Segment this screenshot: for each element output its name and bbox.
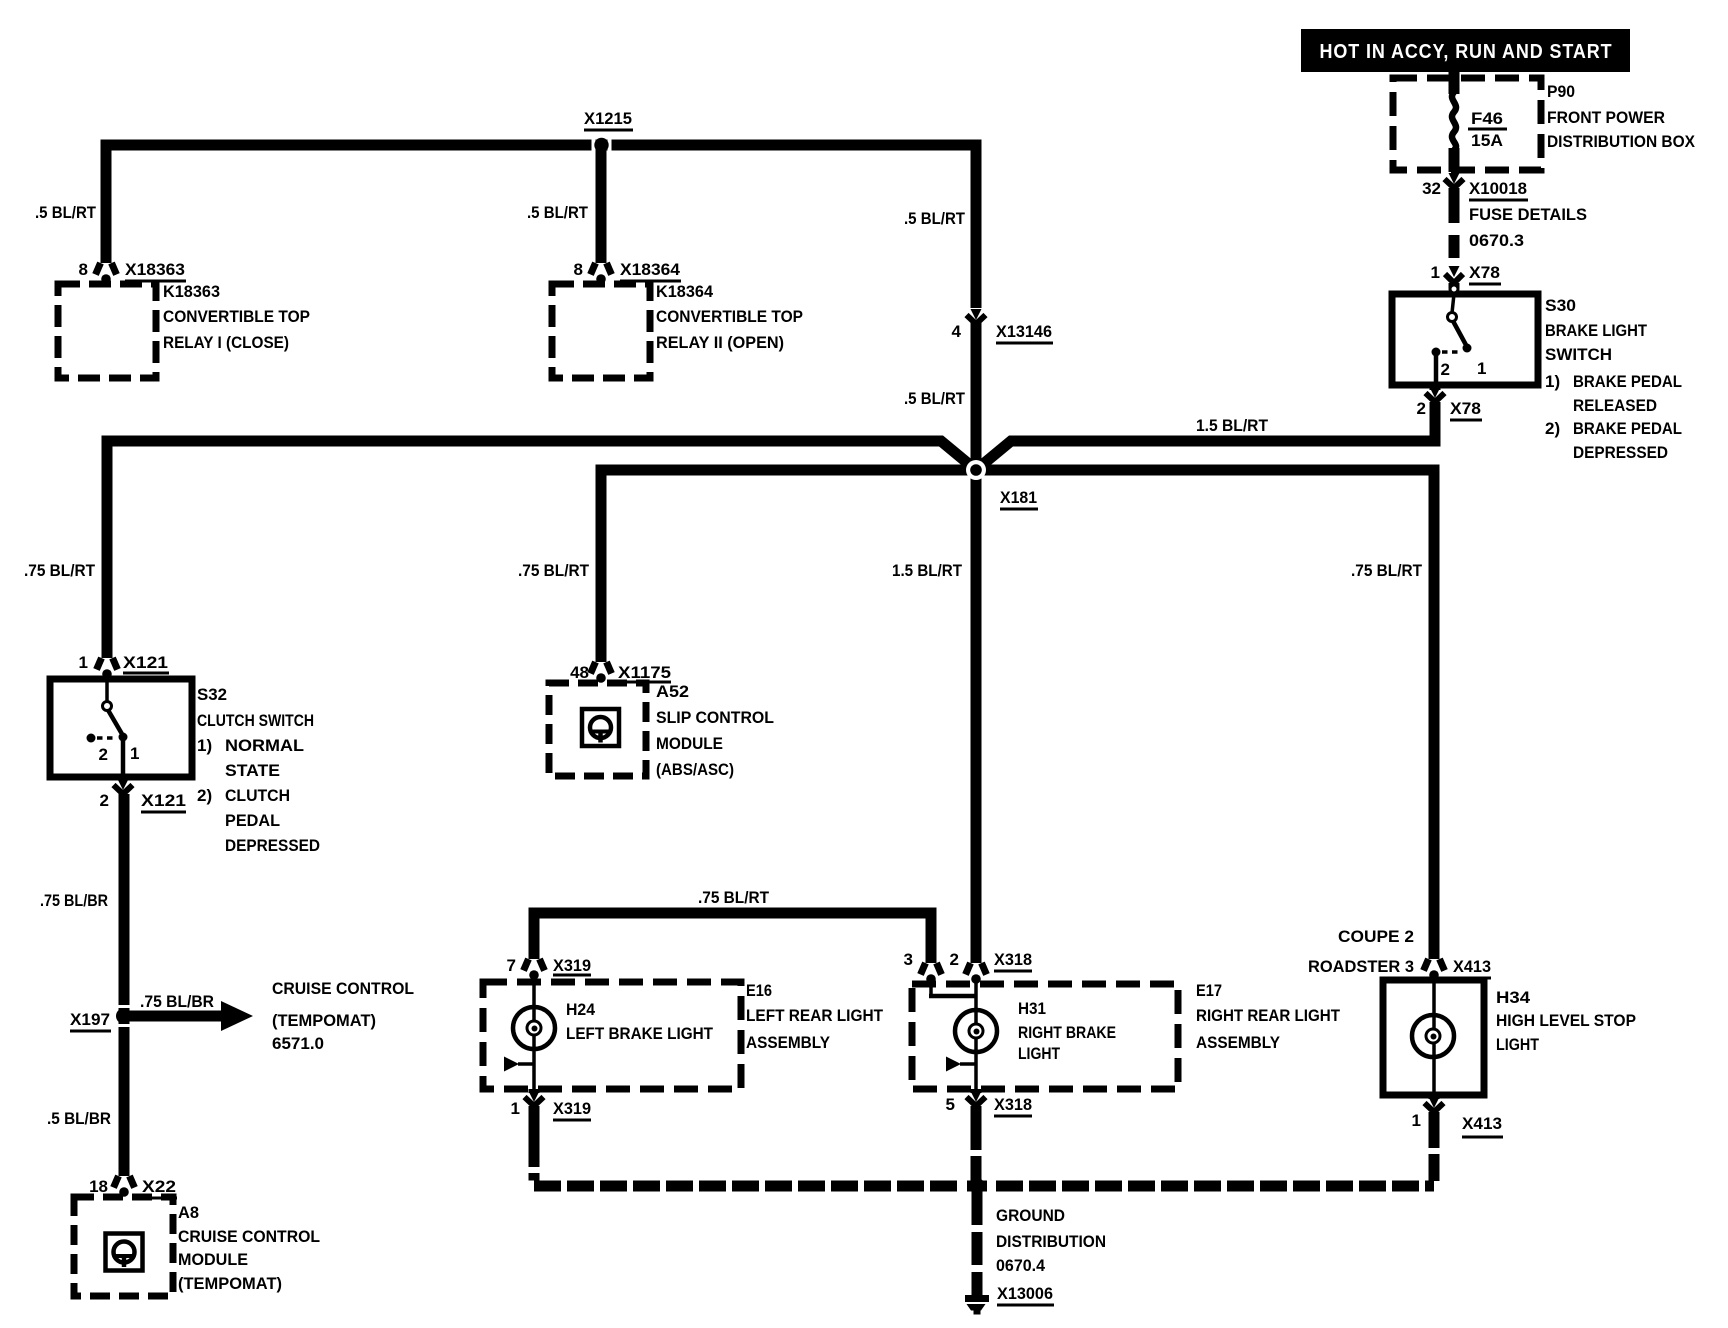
svg-text:(TEMPOMAT): (TEMPOMAT) (178, 1274, 282, 1293)
svg-text:RIGHT REAR LIGHT: RIGHT REAR LIGHT (1196, 1006, 1341, 1025)
svg-text:SWITCH: SWITCH (1545, 345, 1612, 364)
svg-text:.75 BL/RT: .75 BL/RT (1351, 561, 1423, 580)
svg-text:DEPRESSED: DEPRESSED (225, 836, 320, 855)
svg-text:DEPRESSED: DEPRESSED (1573, 443, 1668, 462)
svg-text:LEFT BRAKE LIGHT: LEFT BRAKE LIGHT (566, 1024, 714, 1043)
svg-text:18: 18 (89, 1177, 108, 1196)
svg-text:2: 2 (950, 950, 959, 969)
svg-text:1: 1 (511, 1099, 520, 1118)
svg-text:1): 1) (1545, 372, 1560, 391)
svg-text:1.5 BL/RT: 1.5 BL/RT (892, 561, 963, 580)
svg-text:ASSEMBLY: ASSEMBLY (746, 1033, 831, 1052)
svg-text:K18364: K18364 (656, 282, 714, 301)
svg-text:1: 1 (1412, 1111, 1421, 1130)
svg-text:F46: F46 (1471, 109, 1503, 128)
svg-text:X121: X121 (123, 653, 168, 672)
svg-text:X13006: X13006 (997, 1284, 1053, 1303)
svg-text:E16: E16 (746, 981, 772, 1000)
svg-text:X121: X121 (141, 791, 186, 810)
svg-text:CLUTCH SWITCH: CLUTCH SWITCH (197, 711, 314, 730)
svg-text:.5 BL/RT: .5 BL/RT (35, 203, 97, 222)
svg-text:E17: E17 (1196, 981, 1222, 1000)
svg-text:3: 3 (904, 950, 913, 969)
svg-text:A8: A8 (178, 1203, 199, 1222)
svg-text:15A: 15A (1471, 131, 1503, 150)
svg-text:CONVERTIBLE TOP: CONVERTIBLE TOP (656, 307, 803, 326)
svg-text:1.5 BL/RT: 1.5 BL/RT (1196, 416, 1269, 435)
svg-text:H31: H31 (1018, 999, 1046, 1018)
svg-text:X10018: X10018 (1469, 179, 1527, 198)
svg-text:PEDAL: PEDAL (225, 811, 280, 830)
svg-text:HOT IN ACCY, RUN AND START: HOT IN ACCY, RUN AND START (1320, 41, 1613, 63)
svg-text:RIGHT BRAKE: RIGHT BRAKE (1018, 1023, 1116, 1042)
svg-text:X78: X78 (1450, 399, 1481, 418)
svg-text:2): 2) (1545, 419, 1560, 438)
svg-text:MODULE: MODULE (178, 1250, 248, 1269)
svg-text:DISTRIBUTION: DISTRIBUTION (996, 1232, 1106, 1251)
svg-text:CRUISE CONTROL: CRUISE CONTROL (272, 979, 414, 998)
svg-text:8: 8 (79, 260, 88, 279)
svg-text:.75 BL/BR: .75 BL/BR (140, 992, 214, 1011)
svg-text:K18363: K18363 (163, 282, 220, 301)
svg-text:X413: X413 (1453, 957, 1491, 976)
svg-text:1: 1 (1477, 359, 1486, 378)
svg-text:S32: S32 (197, 685, 227, 704)
svg-text:CLUTCH: CLUTCH (225, 786, 290, 805)
svg-text:ASSEMBLY: ASSEMBLY (1196, 1033, 1281, 1052)
svg-text:RELEASED: RELEASED (1573, 396, 1657, 415)
svg-text:MODULE: MODULE (656, 734, 723, 753)
svg-text:BRAKE PEDAL: BRAKE PEDAL (1573, 419, 1682, 438)
svg-text:1: 1 (79, 653, 88, 672)
svg-text:.75 BL/BR: .75 BL/BR (40, 891, 108, 910)
svg-text:DISTRIBUTION BOX: DISTRIBUTION BOX (1547, 132, 1696, 151)
svg-text:6571.0: 6571.0 (272, 1034, 324, 1053)
svg-text:32: 32 (1422, 179, 1441, 198)
svg-text:COUPE 2: COUPE 2 (1338, 927, 1414, 946)
svg-text:LIGHT: LIGHT (1018, 1044, 1061, 1063)
svg-text:.75 BL/RT: .75 BL/RT (24, 561, 96, 580)
svg-text:BRAKE LIGHT: BRAKE LIGHT (1545, 321, 1648, 340)
svg-text:A52: A52 (656, 682, 689, 701)
svg-text:.5 BL/RT: .5 BL/RT (904, 209, 966, 228)
svg-text:X319: X319 (553, 1099, 591, 1118)
svg-text:X413: X413 (1462, 1114, 1502, 1133)
svg-text:1: 1 (130, 744, 139, 763)
svg-text:.5 BL/RT: .5 BL/RT (527, 203, 589, 222)
svg-text:2): 2) (197, 786, 212, 805)
svg-text:CRUISE CONTROL: CRUISE CONTROL (178, 1227, 320, 1246)
svg-text:4: 4 (952, 322, 962, 341)
svg-text:ROADSTER 3: ROADSTER 3 (1308, 957, 1414, 976)
svg-text:5: 5 (946, 1095, 955, 1114)
svg-text:1: 1 (1431, 263, 1440, 282)
svg-text:STATE: STATE (225, 761, 280, 780)
svg-text:X78: X78 (1469, 263, 1500, 282)
svg-text:H34: H34 (1496, 988, 1531, 1007)
svg-text:X22: X22 (142, 1177, 176, 1196)
svg-text:X18364: X18364 (620, 260, 681, 279)
svg-text:.75 BL/RT: .75 BL/RT (518, 561, 590, 580)
svg-text:RELAY I (CLOSE): RELAY I (CLOSE) (163, 333, 289, 352)
svg-text:BRAKE PEDAL: BRAKE PEDAL (1573, 372, 1682, 391)
svg-text:(TEMPOMAT): (TEMPOMAT) (272, 1011, 376, 1030)
svg-text:HIGH LEVEL STOP: HIGH LEVEL STOP (1496, 1011, 1636, 1030)
svg-text:GROUND: GROUND (996, 1206, 1065, 1225)
svg-text:2: 2 (100, 791, 109, 810)
svg-text:FUSE DETAILS: FUSE DETAILS (1469, 205, 1587, 224)
svg-text:48: 48 (570, 663, 589, 682)
svg-text:CONVERTIBLE TOP: CONVERTIBLE TOP (163, 307, 310, 326)
svg-text:2: 2 (99, 745, 108, 764)
svg-text:S30: S30 (1545, 296, 1576, 315)
svg-text:X1175: X1175 (618, 663, 671, 682)
svg-text:0670.4: 0670.4 (996, 1256, 1046, 1275)
svg-text:7: 7 (507, 956, 516, 975)
svg-text:X13146: X13146 (996, 322, 1052, 341)
svg-text:2: 2 (1417, 399, 1426, 418)
svg-text:.75 BL/RT: .75 BL/RT (698, 888, 770, 907)
svg-text:X318: X318 (994, 950, 1032, 969)
svg-text:LEFT REAR LIGHT: LEFT REAR LIGHT (746, 1006, 884, 1025)
svg-text:FRONT POWER: FRONT POWER (1547, 108, 1665, 127)
svg-text:X18363: X18363 (125, 260, 185, 279)
svg-text:X318: X318 (994, 1095, 1032, 1114)
svg-text:2: 2 (1441, 360, 1450, 379)
svg-text:X1215: X1215 (584, 109, 632, 128)
svg-text:H24: H24 (566, 1000, 596, 1019)
svg-text:1): 1) (197, 736, 212, 755)
svg-text:X181: X181 (1000, 488, 1037, 507)
svg-text:.5 BL/BR: .5 BL/BR (47, 1109, 111, 1128)
svg-text:(ABS/ASC): (ABS/ASC) (656, 760, 734, 779)
svg-text:.5 BL/RT: .5 BL/RT (904, 389, 966, 408)
svg-text:X319: X319 (553, 956, 591, 975)
svg-text:P90: P90 (1547, 82, 1575, 101)
svg-text:0670.3: 0670.3 (1469, 231, 1524, 250)
svg-text:LIGHT: LIGHT (1496, 1035, 1540, 1054)
svg-text:8: 8 (574, 260, 583, 279)
svg-text:SLIP CONTROL: SLIP CONTROL (656, 708, 774, 727)
svg-text:RELAY II (OPEN): RELAY II (OPEN) (656, 333, 784, 352)
svg-text:X197: X197 (70, 1010, 110, 1029)
svg-text:NORMAL: NORMAL (225, 736, 304, 755)
